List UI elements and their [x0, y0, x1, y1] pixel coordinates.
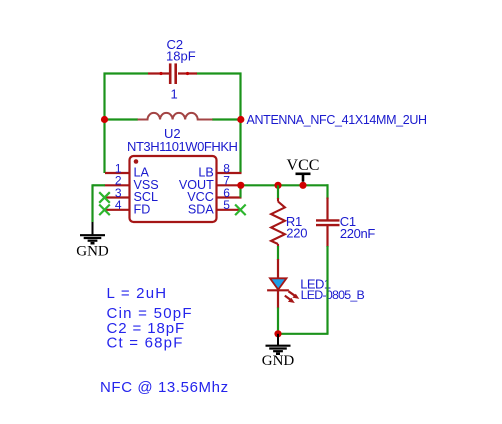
ground GND right — [266, 334, 291, 354]
pin 5 SDA lead — [217, 209, 240, 211]
svg-text:L = 2uH: L = 2uH — [107, 285, 168, 302]
wire C1 branch vertical top — [326, 184, 328, 199]
junction dot R1 node — [274, 182, 281, 189]
junction dot bottom GND node — [274, 330, 281, 337]
svg-text:1: 1 — [171, 87, 178, 102]
wire VSS GND vertical — [91, 184, 93, 222]
pin 6 VCC lead — [217, 196, 242, 198]
no-connect X pin 5 — [235, 205, 246, 216]
junction dot left antenna node — [101, 116, 108, 123]
svg-text:GND: GND — [76, 243, 109, 259]
power flag VCC — [296, 174, 311, 182]
wire C1 branch vertical bottom — [326, 246, 328, 334]
pin 1 LA lead — [105, 172, 130, 174]
pin 4 FD lead — [106, 209, 130, 211]
capacitor C2 — [148, 63, 197, 84]
wire rail down to R1 — [277, 185, 279, 199]
ground GND left — [80, 222, 105, 243]
capacitor C1 — [316, 198, 340, 248]
svg-text:FD: FD — [134, 202, 151, 216]
wire inductor row right segment — [212, 118, 241, 120]
svg-text:NT3H1101W0FHKH: NT3H1101W0FHKH — [127, 139, 238, 154]
wire right vertical (antenna loop right side down to pin 8) — [239, 73, 241, 174]
pin 3 SCL lead — [106, 196, 130, 198]
wire VSS to GND horizontal — [93, 184, 106, 186]
junction dot VOUT node — [237, 182, 244, 189]
inductor L (antenna coil) — [138, 113, 213, 120]
svg-text:220: 220 — [286, 226, 307, 241]
wire VOUT rail to VCC and C1 — [241, 184, 329, 186]
svg-text:Ct = 68pF: Ct = 68pF — [107, 335, 184, 352]
junction dot right antenna node — [237, 116, 244, 123]
emission arrow 1 — [289, 291, 296, 296]
svg-text:5: 5 — [223, 198, 230, 212]
LED LED1 — [267, 259, 299, 308]
svg-text:SDA: SDA — [188, 202, 214, 216]
svg-text:ANTENNA_NFC_41X14MM_2UH: ANTENNA_NFC_41X14MM_2UH — [247, 113, 428, 127]
pin 8 LB lead — [217, 172, 242, 174]
svg-text:4: 4 — [115, 198, 122, 212]
svg-text:VCC: VCC — [287, 157, 320, 174]
emission arrow 2 — [285, 296, 291, 301]
wire top-left vertical (antenna loop left side) — [103, 73, 105, 174]
wire R1 to LED — [277, 246, 279, 260]
wire top horizontal right segment — [197, 72, 242, 74]
wire top horizontal left segment — [104, 72, 149, 74]
wire LED down to GND node — [277, 308, 279, 335]
svg-text:LED-0805_B: LED-0805_B — [301, 288, 365, 302]
svg-text:18pF: 18pF — [166, 49, 196, 64]
IC U2 body — [130, 156, 217, 222]
wire inductor row left segment — [105, 118, 139, 120]
pin 2 VSS lead — [105, 184, 130, 186]
resistor R1 — [271, 198, 285, 247]
no-connect X pin 3 — [99, 192, 110, 203]
wire bottom horizontal to GND node — [278, 333, 329, 335]
no-connect X pin 4 — [99, 205, 110, 216]
svg-text:GND: GND — [262, 353, 295, 369]
pin-1 marker dot — [134, 159, 139, 164]
junction dot VCC node — [299, 182, 306, 189]
svg-text:NFC @ 13.56Mhz: NFC @ 13.56Mhz — [100, 379, 229, 396]
pin 7 VOUT lead — [217, 184, 242, 186]
wire pin6 up to rail — [239, 185, 241, 197]
svg-text:220nF: 220nF — [340, 226, 376, 241]
